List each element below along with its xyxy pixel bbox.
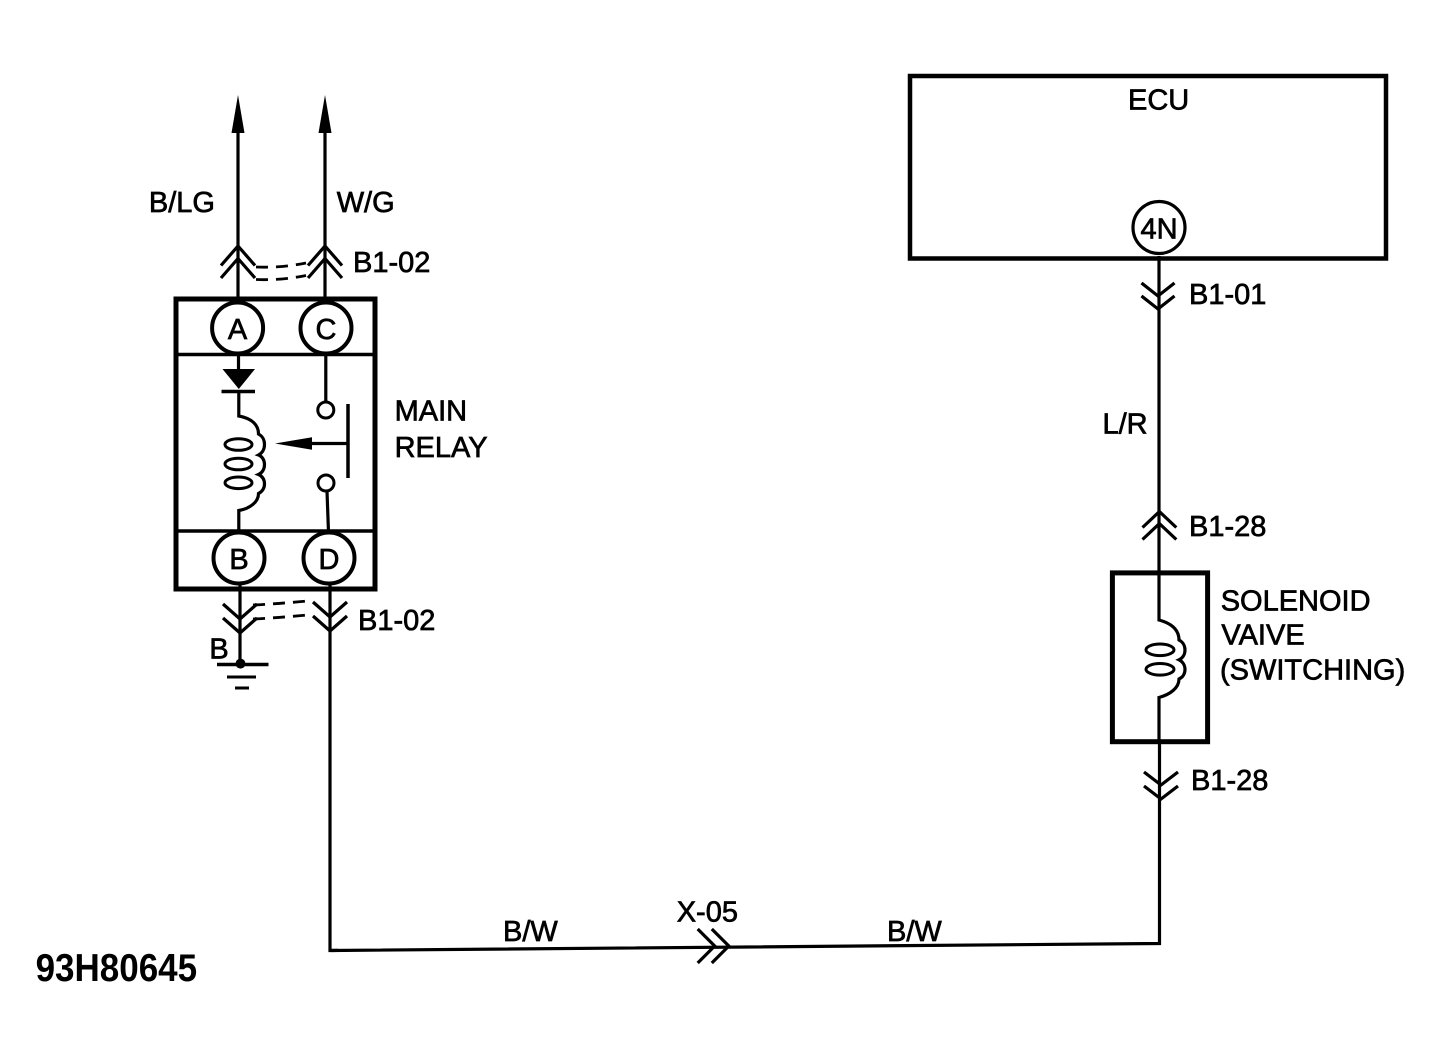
connector B1-02 chevron on B wire bbox=[223, 604, 257, 633]
svg-text:L/R: L/R bbox=[1103, 408, 1148, 440]
svg-text:B1-28: B1-28 bbox=[1189, 511, 1266, 543]
connector X-05 chevrons bbox=[698, 929, 729, 963]
wire C to switch contact bbox=[324, 354, 327, 403]
relay coil loop 2 bbox=[225, 458, 252, 470]
svg-text:VAIVE: VAIVE bbox=[1221, 620, 1304, 652]
svg-text:B/W: B/W bbox=[887, 916, 942, 948]
terminal B bbox=[214, 533, 265, 584]
switch actuation arrow bbox=[308, 442, 348, 445]
svg-text:B1-02: B1-02 bbox=[353, 247, 430, 279]
bottom wire B/W run bbox=[331, 742, 1160, 951]
connector B1-02 dashed link bottom bbox=[253, 601, 312, 606]
connector B1-02 chevrons on B/LG wire bbox=[221, 246, 255, 278]
relay coil wire bbox=[239, 392, 265, 534]
relay coil loop 1 bbox=[225, 439, 252, 451]
connector B1-02 chevron on D wire bbox=[313, 602, 347, 631]
svg-text:B1-01: B1-01 bbox=[1189, 279, 1266, 311]
arrowhead W/G bbox=[319, 95, 332, 133]
ECU pin 4N bbox=[1133, 202, 1185, 254]
svg-text:SOLENOID: SOLENOID bbox=[1221, 586, 1371, 618]
wire A to diode bbox=[237, 354, 240, 370]
svg-text:B: B bbox=[229, 544, 248, 576]
svg-text:X-05: X-05 bbox=[677, 897, 738, 929]
svg-text:93H80645: 93H80645 bbox=[36, 947, 198, 990]
wire B/LG vertical (left) bbox=[236, 130, 239, 302]
connector B1-02 chevrons on W/G wire bbox=[308, 246, 342, 278]
switch contact upper bbox=[318, 402, 334, 418]
switch arm bar bbox=[346, 404, 350, 478]
svg-text:W/G: W/G bbox=[337, 187, 395, 219]
solenoid valve box bbox=[1112, 573, 1207, 742]
connector B1-02 dashed link bbox=[256, 263, 306, 267]
ground bbox=[217, 663, 269, 667]
connector B1-01 chevron bbox=[1142, 283, 1175, 309]
terminal C bbox=[301, 303, 352, 354]
terminal A bbox=[212, 303, 263, 354]
solenoid coil loop 2 bbox=[1146, 664, 1174, 676]
svg-text:MAIN: MAIN bbox=[395, 396, 468, 428]
main relay box bbox=[176, 299, 375, 589]
svg-text:4N: 4N bbox=[1140, 214, 1177, 246]
wire D down from relay bbox=[330, 583, 338, 951]
ECU box bbox=[910, 76, 1386, 259]
switch contact lower bbox=[318, 475, 334, 491]
svg-text:B/LG: B/LG bbox=[149, 187, 215, 219]
connector B1-28 chevron upper bbox=[1143, 512, 1177, 540]
wire lower contact to D bbox=[327, 491, 329, 533]
svg-text:B1-28: B1-28 bbox=[1191, 765, 1268, 797]
relay top band line bbox=[176, 353, 375, 357]
svg-text:D: D bbox=[319, 544, 340, 576]
wire B to ground bbox=[238, 583, 241, 661]
svg-text:A: A bbox=[228, 314, 248, 346]
svg-text:B/W: B/W bbox=[503, 916, 558, 948]
wire W/G vertical bbox=[323, 130, 326, 302]
ground junction dot bbox=[236, 659, 246, 669]
wire 4N down to solenoid valve bbox=[1157, 256, 1160, 573]
svg-text:B: B bbox=[209, 634, 228, 666]
svg-text:ECU: ECU bbox=[1128, 85, 1189, 117]
solenoid coil loop 1 bbox=[1146, 644, 1174, 656]
connector B1-28 chevron lower bbox=[1144, 772, 1178, 799]
relay bottom band line bbox=[176, 529, 375, 533]
svg-text:RELAY: RELAY bbox=[395, 432, 488, 464]
svg-text:B1-02: B1-02 bbox=[358, 605, 435, 637]
diode (relay clamp) bbox=[223, 369, 256, 389]
svg-text:(SWITCHING): (SWITCHING) bbox=[1220, 655, 1405, 687]
terminal D bbox=[304, 533, 355, 584]
relay coil loop 3 bbox=[225, 477, 252, 489]
arrowhead B/LG bbox=[232, 95, 245, 133]
svg-text:C: C bbox=[316, 314, 337, 346]
solenoid coil wire bbox=[1159, 573, 1185, 742]
